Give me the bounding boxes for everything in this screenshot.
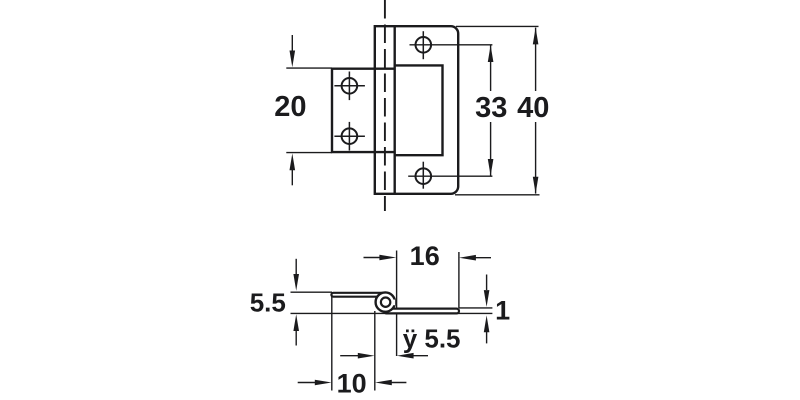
dimension 1 bottom arrow xyxy=(486,331,488,343)
dimension 33 extension line through bottom hole xyxy=(408,175,492,177)
right leaf (profile) xyxy=(384,309,459,314)
dimension 10 right arrow xyxy=(390,382,406,384)
svg-text:16: 16 xyxy=(410,241,440,271)
extension line right leaf top (for 1) xyxy=(459,307,492,309)
extension line curl left vertical (for diameter 5.5 / 10) xyxy=(374,311,376,391)
extension line bottom (for 5.5 and 1) xyxy=(291,312,493,314)
dimension 20 extension line bottom xyxy=(286,152,332,154)
knuckle right edge xyxy=(394,26,396,194)
curl ring opening xyxy=(391,300,396,306)
hole bottom-right xyxy=(416,168,432,184)
extension line curl right vertical (for 16 / diameter 5.5) xyxy=(396,251,398,357)
curl outer circle xyxy=(376,292,395,311)
svg-text:5.5: 5.5 xyxy=(250,287,286,317)
hole top-left xyxy=(342,78,358,94)
extension line leaf top (for 5.5) xyxy=(291,291,333,293)
dimension 40 line with arrows xyxy=(535,28,537,91)
left plate xyxy=(332,69,395,152)
dimension 16 right arrow xyxy=(473,257,491,259)
curl pin circle xyxy=(381,298,390,307)
extension line left end vertical (for 10 / 5.5) xyxy=(331,292,333,391)
dimension 33 line with arrows xyxy=(490,45,492,91)
hole bottom-left xyxy=(342,128,358,144)
dimension 40 extension line bottom xyxy=(455,194,540,196)
extension line right leaf end vertical (for 16) xyxy=(458,252,460,308)
dimension 5.5 bottom arrow xyxy=(295,329,297,346)
svg-text:33: 33 xyxy=(475,92,507,124)
svg-text:10: 10 xyxy=(337,369,367,399)
svg-text:20: 20 xyxy=(274,91,306,123)
dimension 20 extension line top xyxy=(286,67,332,69)
dimension 5.5 top arrow xyxy=(295,259,297,276)
right plate outline xyxy=(375,26,458,194)
hole top-right xyxy=(416,37,432,53)
svg-text:40: 40 xyxy=(517,92,549,124)
dimension 40 extension line top xyxy=(456,25,539,27)
dimension 33 extension line through top hole xyxy=(410,44,493,46)
left leaf (profile) xyxy=(331,293,386,297)
inner rectangle (plate cut-out) xyxy=(395,65,443,155)
dimension diameter 5.5 right arrow xyxy=(411,355,428,357)
dimension 20 top arrow xyxy=(291,35,293,55)
dimension 20 bottom arrow xyxy=(291,166,293,185)
dimension 10 left arrow xyxy=(298,382,315,384)
svg-text:ÿ 5.5: ÿ 5.5 xyxy=(403,324,461,354)
svg-text:1: 1 xyxy=(495,296,510,326)
centerline (dashed) xyxy=(384,0,386,211)
dimension 16 left arrow xyxy=(364,257,383,259)
dimension diameter 5.5 left arrow xyxy=(340,355,358,357)
dimension 1 top arrow xyxy=(486,275,488,291)
